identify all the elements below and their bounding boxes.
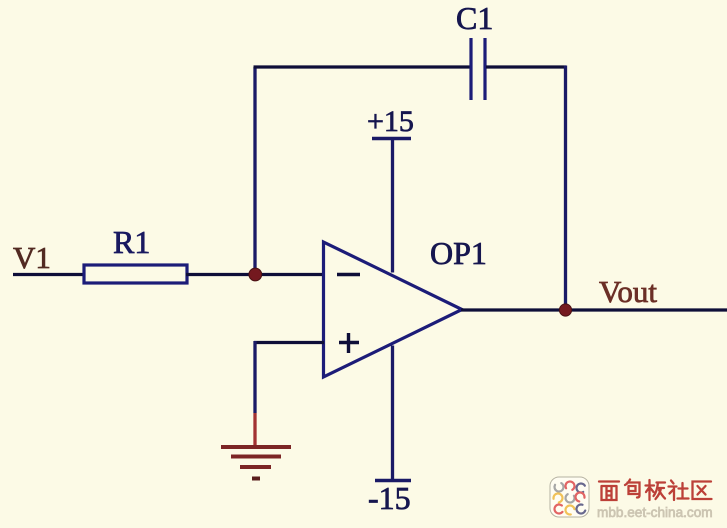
面 (599, 482, 619, 501)
power +15 bar (372, 137, 411, 140)
ground stem (red) (253, 413, 256, 446)
区 (693, 482, 712, 500)
wire: capacitor to right vertical (486, 65, 566, 68)
node: output junction (559, 304, 571, 316)
ground (221, 447, 291, 479)
label R1 (113, 224, 150, 260)
op-amp plus symbol (339, 333, 359, 353)
label +15 (367, 105, 414, 138)
svg-text:R1: R1 (113, 224, 150, 260)
label C1 (456, 0, 493, 36)
op-amp minus symbol (337, 273, 360, 276)
wire: output (461, 308, 727, 311)
svg-text:+15: +15 (367, 105, 414, 138)
包 (625, 480, 640, 498)
label -15 (368, 480, 411, 516)
label V1 (13, 240, 51, 275)
svg-text:Vout: Vout (599, 274, 657, 309)
svg-text:mbb.eet-china.com: mbb.eet-china.com (597, 505, 713, 520)
svg-text:-15: -15 (368, 480, 411, 516)
wire: feedback right vertical down to output (564, 66, 567, 311)
社 (669, 481, 689, 501)
svg-text:OP1: OP1 (430, 235, 487, 271)
svg-text:V1: V1 (13, 240, 51, 275)
wire: -15 stem from op-amp (391, 346, 394, 482)
wire: feedback top horizontal (254, 65, 471, 68)
resistor R1 (84, 265, 187, 283)
label Vout (599, 274, 657, 309)
capacitor C1 (471, 38, 485, 100)
wire: +15 stem to op-amp (391, 139, 394, 273)
watermark logo box (550, 477, 589, 517)
wire: non-inverting input vertical to ground (253, 341, 256, 413)
svg-text:C1: C1 (456, 0, 493, 36)
wire: input from V1 to resistor (13, 273, 86, 276)
板 (646, 480, 666, 500)
wire: resistor to op-amp inverting input (186, 273, 324, 276)
wire: non-inverting input horizontal (254, 341, 324, 344)
watermark text 面包板社区 (vector strokes) (599, 480, 712, 501)
op-amp U1 (OP1) triangle (324, 242, 463, 377)
watermark url (597, 505, 713, 520)
wire: feedback left vertical (253, 67, 256, 275)
label OP1 (430, 235, 487, 271)
node: inverting input junction (249, 268, 262, 281)
power -15 bar (375, 479, 411, 482)
